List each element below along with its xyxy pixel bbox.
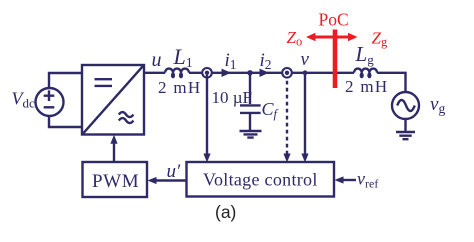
dc source V_dc xyxy=(36,88,64,116)
svg-text:2 mH: 2 mH xyxy=(345,77,388,96)
svg-text:2 mH: 2 mH xyxy=(158,78,201,97)
impedance arrow Zo (left) xyxy=(306,33,335,41)
voltage control box xyxy=(187,162,335,197)
current i1 arrowhead xyxy=(222,69,232,77)
wire Lg to ac source xyxy=(377,73,405,92)
svg-text:PWM: PWM xyxy=(92,171,139,192)
capacitor Cf plates xyxy=(240,105,261,113)
wire dc source top to inverter xyxy=(49,73,82,89)
wire inverter to L1 xyxy=(144,72,165,74)
inverter diagonal xyxy=(83,66,144,134)
measurement node v xyxy=(282,68,292,78)
ac source vg xyxy=(392,92,419,119)
wire L1 to capacitor junction xyxy=(189,72,250,74)
measurement node after L1 xyxy=(202,68,212,78)
wire ac source to ground xyxy=(404,119,406,132)
wire capacitor to ground xyxy=(249,114,251,130)
sense wire i1 to voltage control xyxy=(203,75,210,163)
inductor Lg xyxy=(354,69,377,73)
svg-text:v: v xyxy=(301,49,310,70)
svg-text:10 µF: 10 µF xyxy=(212,88,253,107)
wire junction to capacitor xyxy=(249,73,251,104)
svg-text:(a): (a) xyxy=(215,202,236,222)
inductor L1 xyxy=(165,69,189,73)
wire dc source bottom to inverter xyxy=(49,116,82,128)
impedance arrow Zg (right) xyxy=(335,33,358,41)
svg-text:PoC: PoC xyxy=(319,10,349,30)
wire voltage control to PWM with arrowhead xyxy=(148,177,187,184)
wire junction to node v xyxy=(250,72,354,74)
svg-text:u′: u′ xyxy=(167,161,182,182)
inverter U1 box xyxy=(82,65,144,135)
svg-text:Voltage control: Voltage control xyxy=(203,170,318,190)
PWM box xyxy=(83,162,148,197)
reference input arrow vref xyxy=(335,176,357,183)
ground (capacitor) xyxy=(240,131,262,138)
inverter ac symbol xyxy=(119,112,134,123)
junction node capacitor xyxy=(247,70,252,75)
inverter dc symbol = xyxy=(95,79,113,86)
svg-text:u: u xyxy=(152,49,162,71)
ground (ac source) xyxy=(396,132,415,139)
current i2 arrowhead xyxy=(260,69,270,77)
sense wire v dashed to voltage control xyxy=(283,77,290,163)
junction node v xyxy=(303,70,308,75)
sense wire v solid to voltage control xyxy=(301,74,308,163)
wire PWM to inverter with arrowhead xyxy=(110,135,117,162)
PoC red bar xyxy=(333,30,338,89)
